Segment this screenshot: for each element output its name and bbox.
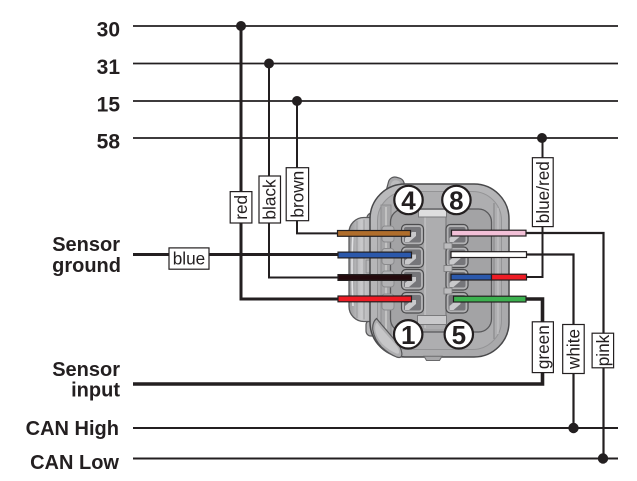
svg-text:Sensor: Sensor (52, 359, 120, 381)
svg-text:blue: blue (173, 249, 206, 269)
svg-text:5: 5 (452, 320, 466, 350)
svg-text:8: 8 (449, 186, 463, 216)
svg-text:CAN High: CAN High (26, 418, 119, 440)
svg-text:pink: pink (593, 334, 613, 366)
svg-text:blue/red: blue/red (533, 161, 553, 223)
svg-text:30: 30 (97, 19, 120, 42)
svg-text:white: white (564, 329, 584, 370)
svg-text:red: red (231, 195, 251, 220)
svg-text:15: 15 (97, 94, 121, 117)
svg-text:58: 58 (97, 131, 121, 154)
svg-text:1: 1 (401, 320, 415, 350)
svg-text:brown: brown (287, 171, 307, 218)
svg-text:green: green (533, 325, 553, 369)
svg-text:31: 31 (97, 56, 121, 79)
svg-text:ground: ground (52, 255, 121, 277)
svg-text:4: 4 (401, 186, 416, 216)
svg-text:input: input (71, 380, 120, 402)
svg-text:Sensor: Sensor (52, 234, 120, 256)
svg-text:CAN Low: CAN Low (30, 452, 119, 474)
svg-text:black: black (260, 179, 280, 220)
